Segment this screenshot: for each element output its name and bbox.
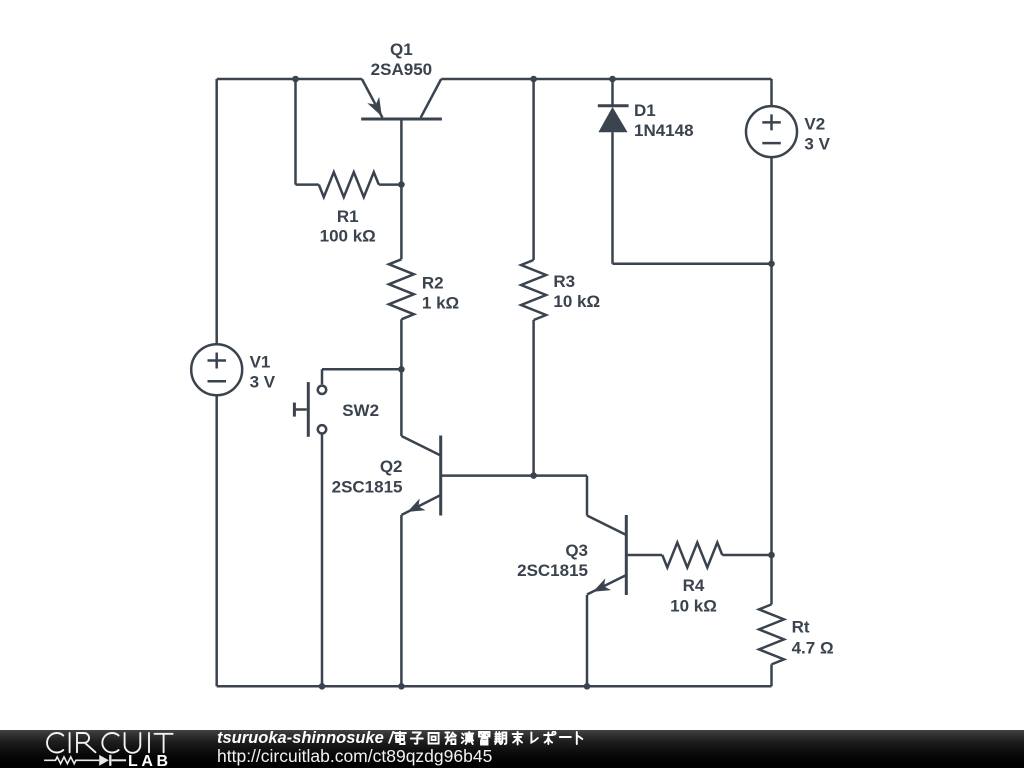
node junction R1/R2/base	[398, 181, 405, 188]
svg-text:1 kΩ: 1 kΩ	[422, 293, 459, 312]
transistor Q2	[401, 436, 440, 516]
wire SW2 top terminal stub	[321, 369, 324, 384]
wire bottom ground rail	[217, 685, 772, 688]
wire SW2 top horizontal	[322, 368, 401, 371]
wire top-right rail segment	[441, 78, 771, 81]
wire R1 branch drop	[294, 79, 297, 185]
resistor Rt	[759, 604, 784, 664]
wire left rail lower (V1 to bottom rail)	[215, 395, 218, 686]
wire R2 bottom lead	[400, 319, 403, 369]
transistor Q3	[587, 515, 626, 595]
footer user / title line	[217, 730, 586, 746]
wire R1 left lead	[296, 183, 319, 186]
wire Q3 base / R4 left lead	[626, 554, 662, 557]
svg-text:2SA950: 2SA950	[371, 60, 432, 79]
wire right rail middle	[770, 264, 773, 555]
wire R1 right lead	[379, 183, 402, 186]
wire Rt bottom lead	[770, 664, 773, 686]
wire Q2 collector riser	[400, 369, 403, 436]
wire D1 to right rail	[613, 262, 772, 265]
node junction R4/right rail	[768, 552, 775, 559]
wire D1 anode drop	[611, 132, 614, 264]
svg-text:V2: V2	[804, 115, 825, 134]
wire top-left rail segment	[217, 78, 362, 81]
node junction SW2 ground	[319, 683, 326, 690]
wire Q1 base to R2 top	[400, 119, 403, 259]
svg-text:V1: V1	[250, 353, 271, 372]
node junction Q3 emitter ground	[584, 683, 591, 690]
diode D1	[598, 106, 629, 132]
wire V2 bottom drop	[770, 157, 773, 264]
svg-text:100 kΩ: 100 kΩ	[320, 227, 376, 246]
svg-text:SW2: SW2	[342, 401, 379, 420]
wire left rail upper (to V1)	[215, 79, 218, 344]
wire Q2 emitter to ground	[400, 515, 403, 686]
switch SW2	[294, 382, 326, 437]
svg-text:2SC1815: 2SC1815	[517, 561, 588, 580]
node junction D1/V2	[768, 260, 775, 267]
node junction top R3	[530, 76, 537, 83]
wire R3 top drop	[532, 79, 535, 260]
wire Rt top lead	[770, 555, 773, 604]
wire R3 bottom lead	[532, 320, 535, 476]
svg-text:Rt: Rt	[792, 618, 810, 637]
svg-text:R2: R2	[422, 273, 444, 292]
svg-text:10 kΩ: 10 kΩ	[553, 292, 600, 311]
wire right rail to V2 top	[770, 79, 773, 106]
svg-text:R1: R1	[337, 207, 359, 226]
svg-text:Q3: Q3	[565, 541, 588, 560]
CircuitLab logo	[0, 730, 200, 768]
node junction SW2/R2/Q2	[398, 366, 405, 373]
resistor R2	[389, 259, 414, 319]
node junction top R1	[292, 76, 299, 83]
svg-text:Q2: Q2	[380, 457, 403, 476]
svg-text:3 V: 3 V	[250, 373, 276, 392]
svg-text:Q1: Q1	[390, 40, 413, 59]
wire Q3 emitter to ground	[586, 595, 589, 686]
svg-text:3 V: 3 V	[804, 135, 830, 154]
resistor R4	[662, 543, 722, 568]
node junction R3/Q2 base	[530, 472, 537, 479]
svg-text:D1: D1	[634, 101, 656, 120]
resistor R1	[319, 172, 379, 197]
wire D1 top stub	[611, 79, 614, 106]
svg-text:4.7 Ω: 4.7 Ω	[792, 639, 834, 658]
svg-text:10 kΩ: 10 kΩ	[670, 597, 717, 616]
voltage source V2	[746, 106, 797, 157]
wire R4 right lead	[722, 554, 771, 557]
footer url line	[217, 747, 492, 765]
node junction top D1	[609, 76, 616, 83]
wire Q2 base horizontal	[441, 474, 587, 477]
svg-text:2SC1815: 2SC1815	[332, 478, 403, 497]
svg-text:1N4148: 1N4148	[634, 121, 694, 140]
wire SW2 bottom to ground	[321, 434, 324, 686]
wire Q3 collector riser	[586, 476, 589, 516]
voltage source V1	[191, 344, 242, 395]
node junction Q2 emitter ground	[398, 683, 405, 690]
svg-text:R4: R4	[683, 576, 705, 595]
svg-text:R3: R3	[553, 272, 575, 291]
transistor Q1	[361, 79, 442, 119]
resistor R3	[521, 260, 546, 320]
